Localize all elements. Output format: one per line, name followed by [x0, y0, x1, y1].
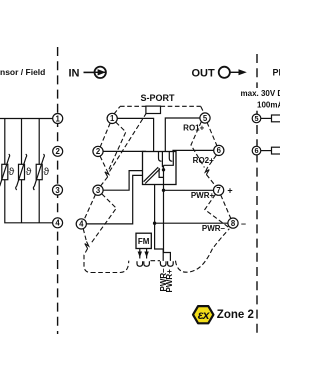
wire terminal 6 to block — [173, 150, 214, 151]
node PLC terminal 5 — [252, 114, 261, 123]
svg-text:PWR+: PWR+ — [165, 269, 174, 293]
svg-text:6: 6 — [217, 146, 222, 155]
module outline 4 to V2 diagonal — [83, 229, 86, 242]
svg-text:S-PORT: S-PORT — [140, 93, 175, 103]
module outline bottom left descent — [84, 249, 91, 273]
wire sensor right top drop — [38, 119, 40, 165]
wire sensor bottom bus to terminal 4 — [5, 180, 53, 223]
svg-text:2: 2 — [56, 147, 61, 156]
wire sensor mid bottom drop — [21, 180, 23, 223]
zone separator line left (dashed vertical) — [57, 47, 59, 334]
node module terminal 4 — [76, 219, 86, 229]
relay contact RO2 — [169, 152, 172, 162]
resistor RTD2 (temperature sensor) — [16, 154, 27, 190]
node module terminal 5 — [200, 113, 210, 123]
module outline bottom horizontal left — [91, 261, 129, 273]
svg-text:PWR+: PWR+ — [191, 191, 215, 200]
wire PLC terminal 6 to load — [261, 150, 272, 152]
svg-text:IN: IN — [69, 68, 80, 80]
junction relay common — [162, 168, 165, 171]
symbol OUT (circle with outward arrow) — [219, 67, 247, 78]
module outline 6 to V3 diagonal — [208, 155, 217, 167]
svg-text:Zone 2: Zone 2 — [217, 309, 254, 321]
resistor load RO1 (clipped) — [272, 115, 282, 122]
FM block (fault monitoring) — [136, 233, 151, 248]
node module terminal 6 — [214, 145, 224, 155]
svg-text:4: 4 — [55, 219, 60, 228]
node module terminal 3 — [93, 185, 103, 195]
wire sensor mid top drop — [21, 119, 23, 165]
node field terminal 3 — [53, 185, 63, 195]
module outline 1-2 diagonal — [100, 123, 110, 147]
S-PORT notch — [146, 106, 161, 113]
module outline top left diagonal — [114, 107, 120, 115]
module outline 7 left vertex diagonal — [205, 194, 229, 227]
wire terminal 2 to block — [103, 150, 145, 152]
bus socket PWR+ — [168, 261, 174, 266]
svg-text:RO2+: RO2+ — [193, 156, 214, 165]
isolation barrier step — [159, 168, 163, 177]
module outline V3 break zigzag — [205, 168, 209, 175]
module outline top left horizontal — [120, 105, 146, 107]
module outline 3 right vertex diagonal — [91, 194, 117, 244]
Ex hexagon symbol — [193, 306, 213, 323]
svg-text:2: 2 — [96, 147, 101, 156]
svg-text:7: 7 — [216, 186, 220, 195]
wire FM left output — [139, 249, 141, 259]
junction PWR+ — [162, 189, 165, 192]
wire relay common vertical — [163, 165, 165, 190]
svg-text:PWR–: PWR– — [202, 224, 226, 233]
wire FM right output — [146, 249, 148, 259]
node module terminal 1 — [107, 113, 117, 123]
module outline 3-4 diagonal — [84, 194, 96, 220]
module outline 1 right vertex diagonal — [109, 122, 126, 169]
wire PWR- vertical below block — [155, 185, 164, 261]
node module terminal 8 — [228, 218, 238, 228]
svg-text:Sensor / Field: Sensor / Field — [0, 67, 45, 77]
svg-text:ϑ: ϑ — [9, 166, 15, 178]
wire sensor right bottom drop — [38, 180, 40, 223]
svg-text:5: 5 — [203, 114, 208, 123]
svg-text:–: – — [241, 219, 246, 229]
svg-text:max. 30V DC: max. 30V DC — [241, 89, 281, 98]
svg-text:5: 5 — [254, 114, 258, 123]
svg-text:PLC: PLC — [273, 68, 281, 78]
svg-text:+: + — [227, 185, 232, 195]
module outline bottom bus row segment — [151, 260, 161, 262]
isolator block U1 — [143, 152, 177, 185]
node module terminal 2 — [93, 146, 103, 156]
wire terminal 3 to block — [103, 171, 142, 191]
module outline V1 to S-PORT diagonal — [110, 114, 146, 172]
module outline 5 left vertex diagonal — [191, 122, 204, 168]
junction PWR- — [153, 222, 156, 225]
svg-text:8: 8 — [231, 219, 236, 228]
bus socket FM1 — [137, 261, 143, 266]
label max. 30V DC — [239, 88, 280, 108]
node module terminal 7 — [214, 185, 224, 195]
svg-text:1: 1 — [110, 114, 115, 123]
svg-text:3: 3 — [96, 186, 101, 195]
resistor RTD1 (temperature sensor, clipped) — [0, 154, 10, 190]
module outline 7-8 diagonal — [221, 195, 231, 219]
node field terminal 2 — [53, 146, 63, 156]
module outline top right diagonal — [201, 107, 204, 114]
module outline top right horizontal — [161, 105, 201, 107]
wire sensor top bus to terminal 1 — [0, 119, 53, 165]
resistor RTD3 (temperature sensor) — [33, 154, 44, 190]
wire PLC terminal 5 to load — [261, 117, 272, 119]
wire junction to terminal 7 — [164, 189, 214, 191]
node PLC terminal 6 — [252, 146, 261, 155]
bus socket FM2 — [144, 261, 150, 266]
svg-text:1: 1 — [56, 114, 61, 123]
module outline 5-6 diagonal — [207, 122, 217, 146]
svg-text:ϑ: ϑ — [26, 166, 32, 178]
node field terminal 4 — [53, 218, 63, 228]
svg-text:RO1+: RO1+ — [183, 124, 204, 133]
svg-text:ϑ: ϑ — [43, 166, 49, 178]
svg-text:6: 6 — [254, 146, 258, 155]
bus socket PWR- — [160, 261, 166, 266]
wire terminal 5 to block — [165, 118, 200, 152]
module outline bottom right curve to 8 — [183, 229, 229, 273]
module outline bottom bus row right — [176, 261, 184, 272]
svg-text:3: 3 — [55, 186, 60, 195]
module outline 2 to V1 diagonal — [100, 156, 107, 170]
module outline V1 break zigzag — [105, 170, 109, 177]
module outline V3 to 7 diagonal — [206, 175, 216, 187]
resistor load RO2 (clipped) — [272, 147, 282, 154]
svg-text:FM: FM — [138, 237, 150, 246]
svg-text:OUT: OUT — [192, 68, 216, 80]
module outline V1 to 3 diagonal — [101, 177, 108, 186]
svg-text:4: 4 — [79, 220, 84, 229]
isolation barrier double diagonal — [144, 167, 160, 183]
svg-text:100mA: 100mA — [257, 101, 280, 110]
module outline V2 break zigzag — [85, 242, 89, 249]
wire terminal 4 to block — [86, 175, 142, 224]
zone separator line right (dashed vertical) — [256, 54, 258, 333]
node field terminal 1 — [53, 114, 63, 124]
wire PWR+ vertical below block — [164, 190, 171, 261]
arrow FM left — [138, 252, 142, 258]
wire terminal 1 to block — [117, 118, 153, 151]
symbol IN (circle with inward arrow) — [84, 67, 106, 78]
wire junction to terminal 8 — [155, 222, 228, 224]
arrow FM right — [144, 252, 148, 258]
relay contact RO1 — [159, 152, 162, 162]
